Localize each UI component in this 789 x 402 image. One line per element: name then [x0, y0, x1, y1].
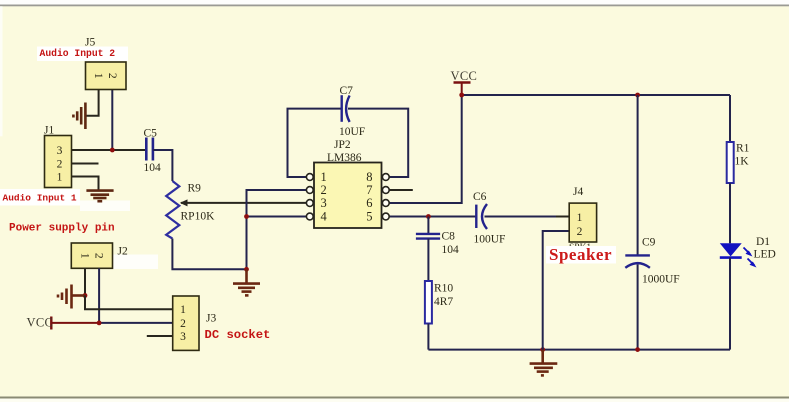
wire pin2 left and down — [247, 190, 307, 269]
svg-text:C8: C8 — [442, 231, 456, 243]
svg-text:J4: J4 — [573, 186, 583, 198]
svg-text:6: 6 — [366, 196, 372, 210]
bottom ground rail — [428, 349, 730, 351]
svg-text:C9: C9 — [642, 237, 656, 249]
svg-text:3: 3 — [321, 196, 327, 210]
svg-text:10UF: 10UF — [339, 126, 365, 138]
svg-text:J2: J2 — [118, 246, 128, 258]
wire R10 to bottom rail — [427, 324, 429, 350]
junction bottom ground — [540, 347, 545, 352]
svg-text:JP2: JP2 — [334, 139, 351, 151]
junction C9 bottom — [635, 347, 640, 352]
IC pin circles right — [382, 174, 389, 220]
junction pin4/vertical — [244, 214, 249, 219]
wire junction to C8 — [427, 217, 429, 234]
svg-text:J3: J3 — [206, 313, 216, 325]
wire J5 pin1 to ground — [86, 90, 99, 116]
wiper arrow of RP10K to pin3 — [180, 199, 307, 206]
junction C8/pin5 — [426, 214, 431, 219]
J3 pin3 stub — [147, 335, 173, 337]
wire J5 pin2 down to node A — [111, 90, 113, 151]
svg-text:104: 104 — [442, 244, 460, 256]
wire C7 right to pin8 — [348, 109, 408, 177]
J4 pin numbers — [577, 212, 583, 238]
IC pin circles left — [306, 174, 313, 220]
connector J4 body — [569, 203, 596, 242]
svg-text:104: 104 — [144, 162, 162, 174]
ground GND3 (left of J2) — [58, 285, 85, 309]
pin numbers right 8-5 — [366, 170, 372, 224]
wire pin5 to C6 — [389, 216, 476, 218]
svg-text:1: 1 — [577, 212, 583, 224]
svg-text:R1: R1 — [736, 143, 750, 155]
connector J1 body — [45, 136, 72, 188]
svg-text:C7: C7 — [340, 85, 354, 97]
svg-text:2: 2 — [93, 253, 105, 259]
diode D1 LED — [720, 243, 757, 267]
wire R9 bottom to ground junction — [172, 239, 246, 270]
pin7 stub — [389, 189, 413, 191]
wire LED to bottom rail — [729, 258, 731, 350]
svg-text:3: 3 — [57, 145, 63, 157]
connector J5 body — [86, 62, 127, 90]
ground GND1 (left of J5 pin1) — [73, 103, 85, 130]
wire C6 to J4 pin1 — [485, 216, 570, 218]
resistor R1 — [727, 142, 734, 183]
white patch behind Audio Input 1 — [0, 189, 80, 206]
white patch behind Speaker — [546, 246, 616, 264]
svg-text:1: 1 — [180, 304, 186, 316]
junction VCC node — [459, 93, 464, 98]
svg-text:R10: R10 — [434, 283, 453, 295]
svg-text:VCC: VCC — [451, 69, 478, 83]
wire C9 riser — [637, 95, 639, 255]
svg-text:LM386: LM386 — [327, 152, 362, 164]
svg-text:RP10K: RP10K — [181, 211, 216, 223]
wire down to R1 — [729, 95, 731, 142]
wire J2 pin2 down — [98, 268, 100, 323]
wire J2 pin1 to J3 pin1 — [85, 296, 173, 310]
IC U1 JP2 LM386 body — [314, 163, 382, 229]
svg-text:DC socket: DC socket — [205, 328, 271, 342]
capacitor C5 — [146, 138, 153, 161]
svg-text:LED: LED — [754, 249, 776, 261]
white patch near J2 — [110, 255, 158, 270]
power port VCC top — [454, 83, 471, 96]
svg-text:R9: R9 — [188, 183, 202, 195]
wire J1 pin2 stub — [72, 163, 99, 165]
svg-text:1: 1 — [57, 172, 63, 184]
wire J2 pin1 down — [84, 268, 86, 295]
svg-text:C6: C6 — [473, 191, 487, 203]
ground GND5 (under IC) — [233, 269, 260, 295]
wire pin6 up to VCC node — [389, 95, 462, 203]
capacitor C9 — [625, 255, 650, 267]
J4 pin1 stub — [556, 216, 569, 218]
svg-text:7: 7 — [366, 183, 372, 197]
svg-text:2: 2 — [106, 73, 118, 79]
svg-text:C5: C5 — [144, 128, 158, 140]
svg-text:2: 2 — [57, 159, 63, 171]
connector J2 body — [71, 243, 112, 268]
svg-text:Audio Input 1: Audio Input 1 — [3, 193, 77, 204]
svg-text:4: 4 — [321, 210, 328, 224]
svg-text:Audio Input 2: Audio Input 2 — [40, 48, 116, 59]
wire C5 to R9 top — [153, 150, 173, 181]
node A junction — [110, 148, 115, 153]
wire VCC to J3 pin2 — [99, 322, 173, 324]
white patch behind Audio Input 2 — [37, 47, 128, 62]
svg-text:8: 8 — [366, 170, 372, 184]
J3 pin numbers — [180, 304, 186, 343]
connector J3 body — [173, 296, 199, 350]
wire pin1 to C7 left — [288, 109, 342, 177]
svg-text:Speaker: Speaker — [549, 245, 612, 264]
wire pin4 left — [247, 216, 307, 218]
wire C9 bottom — [637, 265, 639, 350]
capacitor C7 — [342, 95, 350, 122]
ground GND4 (bottom center) — [530, 350, 558, 376]
capacitor C8 — [416, 234, 440, 239]
svg-text:2: 2 — [180, 318, 186, 330]
wire VCC rail top — [462, 94, 730, 96]
svg-text:1: 1 — [92, 73, 104, 79]
svg-text:1: 1 — [78, 253, 90, 259]
svg-text:D1: D1 — [756, 236, 770, 248]
J1 pin numbers — [57, 145, 63, 184]
svg-text:2: 2 — [321, 183, 327, 197]
wire J1 pin1 to ground — [72, 177, 99, 191]
wire R1 to LED — [729, 183, 731, 243]
junction R9 bottom — [244, 267, 249, 272]
wire J4 pin2 down to rail — [543, 231, 570, 350]
svg-text:1K: 1K — [735, 156, 750, 168]
wire J1 pin3 to node A and C5 — [72, 149, 147, 151]
svg-text:3: 3 — [180, 331, 186, 343]
capacitor C6 — [476, 204, 487, 229]
resistor R10 — [425, 281, 432, 324]
svg-text:J5: J5 — [85, 37, 95, 49]
svg-text:1: 1 — [321, 170, 327, 184]
svg-text:1000UF: 1000UF — [642, 274, 680, 286]
junction C9 top — [635, 93, 640, 98]
junction J2 pin1/ground — [83, 293, 88, 298]
junction J2 pin2/VCC — [97, 321, 102, 326]
svg-text:Power supply pin: Power supply pin — [9, 223, 115, 235]
svg-text:5: 5 — [366, 210, 372, 224]
svg-text:4R7: 4R7 — [434, 296, 453, 308]
svg-text:100UF: 100UF — [474, 234, 506, 246]
power port VCC bottom — [51, 317, 99, 330]
pin numbers left 1-4 — [321, 170, 328, 224]
wire C8 to R10 — [427, 239, 429, 281]
svg-text:J1: J1 — [44, 125, 54, 137]
svg-text:VCC: VCC — [27, 316, 54, 330]
svg-text:2: 2 — [577, 226, 583, 238]
resistor R9 zigzag — [166, 181, 179, 239]
ground GND2 (under J1 pin1) — [86, 191, 113, 202]
